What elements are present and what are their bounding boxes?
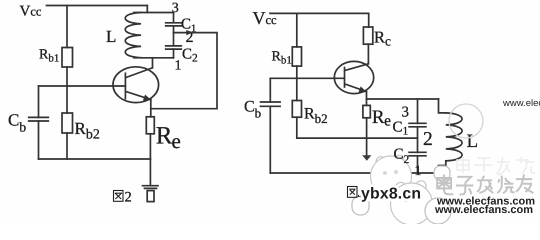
node 1 xyxy=(175,59,182,74)
wire Cb branch upper xyxy=(38,86,40,117)
友 xyxy=(516,175,533,194)
wire Re bottom through node2 rail xyxy=(366,118,368,155)
resistor Rb2 (right) xyxy=(292,101,301,118)
label 图3 xyxy=(348,187,358,198)
transistor Q1 base bar xyxy=(124,73,126,98)
capacitor Cb (left) xyxy=(29,117,49,121)
wire Cb branch lower xyxy=(38,121,40,159)
wire tank line mid segment xyxy=(173,26,175,46)
wire Re bottom to ground xyxy=(149,134,151,185)
transistor Q2 collector xyxy=(345,64,368,71)
watermark panda faces xyxy=(383,170,419,202)
ground (left) xyxy=(143,186,159,189)
transistor Q2 emitter arrow xyxy=(359,86,367,92)
wire Rc bottom to collector xyxy=(367,44,369,64)
wire tank line upper segment xyxy=(173,13,175,23)
wire node3 rail to tank xyxy=(367,98,439,100)
wire tank top jog to coil xyxy=(439,99,446,113)
resistor Rb1 (right) xyxy=(292,47,301,66)
wire bottom rail left xyxy=(39,158,151,160)
wire Rb2 branch upper xyxy=(66,86,68,113)
wire emitter down to node3 rail xyxy=(366,92,368,100)
wire Rb2 branch lower xyxy=(66,133,68,159)
svg-text:www.elecfans.com: www.elecfans.com xyxy=(502,98,540,109)
子 xyxy=(456,177,473,195)
transistor Q2 base bar xyxy=(344,68,346,88)
node 3 xyxy=(172,1,179,16)
wire collector drop from node1 rail xyxy=(152,58,154,68)
node Vcc label (right) xyxy=(253,8,278,28)
resistor Rb2 (left) xyxy=(62,113,73,133)
wire tank line lower segment xyxy=(173,49,175,58)
wire Cb branch upper (right) xyxy=(269,78,271,102)
电 xyxy=(437,175,453,195)
watermark big hanzi 电子发烧友 xyxy=(437,175,533,195)
svg-text:2: 2 xyxy=(125,190,132,206)
transistor Q1 collector xyxy=(126,68,153,78)
resistor Rc xyxy=(363,27,372,44)
wire tank cap line upper (right) xyxy=(417,99,419,123)
wire node2 feedback: right and down to emitter xyxy=(151,33,217,109)
wire Rb2 bottom corner to node2 rail xyxy=(297,117,418,138)
wire emitter down xyxy=(150,100,152,117)
node 3 (right) xyxy=(402,105,410,121)
label 图2 xyxy=(114,191,124,202)
wire coil bottom jog to bottom rail xyxy=(439,161,446,173)
wire base rail xyxy=(39,85,126,87)
wire Rb1 bottom to base rail (right) xyxy=(296,66,298,78)
capacitor C2 (left) xyxy=(166,46,182,49)
svg-text:1: 1 xyxy=(175,59,182,74)
wire Cb branch lower (right) xyxy=(269,106,271,173)
capacitor C2 (right) xyxy=(409,152,426,156)
transistor Q1 emitter arrow xyxy=(143,95,151,101)
wire top rail right xyxy=(270,12,369,14)
svg-text:Vcc: Vcc xyxy=(20,4,42,20)
resistor Re (left) xyxy=(146,117,154,134)
transistor Q2 circle xyxy=(334,61,373,93)
ground arrow (right) xyxy=(362,155,371,161)
transistor Q2 emitter xyxy=(345,84,366,92)
wire Rb2 branch upper (right) xyxy=(296,78,298,100)
inductor L (right) xyxy=(446,113,462,161)
watermark panda circle B xyxy=(391,181,433,225)
watermark faint circle top right xyxy=(449,104,483,138)
svg-text:1: 1 xyxy=(415,164,422,179)
wire Vcc branch to Rb1 (right) xyxy=(296,13,298,47)
svg-text:2: 2 xyxy=(423,129,433,150)
wire tank cap line mid (right) xyxy=(417,127,419,153)
watermark panda circle A xyxy=(371,155,412,197)
node 2 (right) xyxy=(423,129,433,150)
transistor Q1 emitter xyxy=(126,92,151,100)
svg-text:ybx8.cn: ybx8.cn xyxy=(361,185,421,202)
node Vcc label (left) xyxy=(20,4,42,20)
wire Vcc branch to Rb1 xyxy=(66,6,68,48)
wire bottom rail right xyxy=(270,172,438,174)
watermark faint second hanzi row xyxy=(457,156,535,175)
烧 xyxy=(497,176,514,193)
wire Rb1 bottom to base rail xyxy=(66,67,68,86)
resistor Rb1 (left) xyxy=(62,48,73,68)
wire coil top to tank line xyxy=(134,12,174,14)
svg-text:L: L xyxy=(106,27,116,46)
wire coil bottom / node 1 rail xyxy=(134,57,174,59)
wire top rail left xyxy=(47,5,148,7)
resistor Re (right) xyxy=(363,105,370,117)
wire tank cap line lower (right) xyxy=(417,156,419,173)
capacitor Cb (right) xyxy=(261,102,281,106)
node 2 xyxy=(186,29,194,46)
wire corner to coil top xyxy=(146,6,148,13)
watermark paw shapes xyxy=(352,166,451,224)
arrow on node2 feedback wire xyxy=(186,30,192,35)
wire emitter branch down to Re xyxy=(366,99,368,105)
发 xyxy=(477,176,493,193)
capacitor C1 (left) xyxy=(166,23,182,26)
svg-text:www.elecfans.com: www.elecfans.com xyxy=(434,204,533,216)
transistor Q1 circle xyxy=(113,67,159,103)
capacitor C1 (right) xyxy=(393,120,409,138)
wire Rc corner xyxy=(368,13,370,27)
svg-text:3: 3 xyxy=(402,105,410,121)
wire base rail (right) xyxy=(270,77,344,79)
inductor L (left) xyxy=(125,13,141,58)
